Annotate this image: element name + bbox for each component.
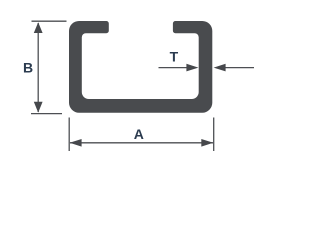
dimension B top tick <box>32 20 67 22</box>
dimension B arrow down <box>34 102 43 113</box>
dimension A right extension line <box>213 118 215 152</box>
svg-text:T: T <box>170 48 179 64</box>
dimension B bottom tick <box>31 113 62 115</box>
dimension T left line <box>159 67 197 69</box>
dimension B arrow up <box>34 22 43 33</box>
svg-text:B: B <box>23 60 33 76</box>
dimension T left arrow <box>186 64 198 72</box>
svg-text:A: A <box>134 126 144 142</box>
dimension A arrow right <box>201 139 213 147</box>
dimension A left extension line <box>68 118 70 152</box>
dimension A arrow left <box>70 139 82 147</box>
dimension B line <box>37 23 39 112</box>
channel C-profile body <box>69 21 212 113</box>
dimension T right line <box>216 67 254 69</box>
dimension T right arrow <box>214 64 226 72</box>
dimension A line <box>70 142 213 144</box>
